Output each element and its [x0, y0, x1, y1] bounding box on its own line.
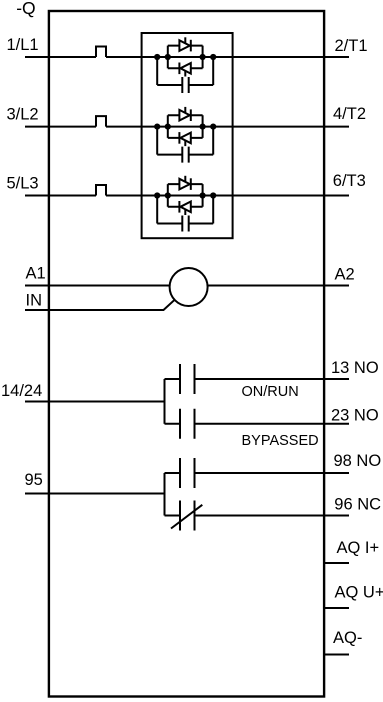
bypass contact (phase L1) [157, 84, 213, 86]
node L3 bypass left [154, 192, 160, 198]
contact 96 NC leads [165, 515, 350, 517]
wire AQ U+ stub [324, 607, 349, 609]
node L2 thyristor right [200, 124, 206, 130]
node L3 thyristor right [200, 192, 206, 198]
svg-text:A2: A2 [335, 266, 355, 284]
wire AQ I+ stub [324, 562, 349, 564]
svg-text:4/T2: 4/T2 [333, 105, 366, 123]
wire L3 through [106, 195, 349, 197]
device outline box -Q [49, 11, 324, 697]
svg-text:6/T3: 6/T3 [333, 172, 366, 190]
svg-text:2/T1: 2/T1 [335, 37, 368, 55]
svg-text:95: 95 [25, 471, 43, 489]
wire 95 input [25, 493, 165, 495]
wire L3 thyristor loop verticals [168, 184, 203, 207]
svg-text:3/L2: 3/L2 [7, 106, 39, 124]
wire L2 bypass loop verticals [157, 127, 213, 155]
contact 96 NC slash [171, 505, 202, 529]
svg-text:IN: IN [26, 291, 43, 309]
wire L1 through [106, 56, 349, 58]
wire A2 [208, 285, 350, 287]
thyristor V6 reverse (phase L3) [168, 206, 203, 208]
thyristor V3 forward (phase L2) [168, 114, 203, 116]
current pulse symbol L1 [96, 47, 106, 58]
wire AQ- stub [324, 654, 349, 656]
svg-text:96 NC: 96 NC [334, 495, 381, 513]
thyristor V1 forward (phase L1) [168, 45, 203, 47]
node L1 bypass right [210, 54, 216, 60]
thyristor V4 reverse (phase L2) [168, 137, 203, 139]
contact 13 NO plates [180, 364, 195, 394]
bypass contact (phase L2) [157, 154, 213, 156]
thyristor block box [142, 33, 233, 238]
wire L1 bypass loop verticals [157, 57, 213, 85]
contact 13 NO leads [165, 378, 350, 380]
svg-text:13 NO: 13 NO [331, 359, 379, 377]
svg-text:AQ I+: AQ I+ [337, 539, 380, 557]
wire contact riser 13-23 [164, 379, 166, 424]
contact 96 NC plates [180, 501, 195, 531]
wire A1 [25, 285, 170, 287]
contact 23 NO plates [180, 409, 195, 439]
contact 98 NO leads [165, 472, 350, 474]
svg-text:98 NO: 98 NO [334, 452, 382, 470]
wire IN [25, 300, 175, 310]
svg-text:AQ U+: AQ U+ [335, 584, 383, 602]
wire 14/24 input [25, 401, 165, 403]
thyristor V5 forward (phase L3) [168, 183, 203, 185]
node L1 bypass left [154, 54, 160, 60]
wire L1 thyristor loop verticals [168, 46, 203, 69]
svg-text:BYPASSED: BYPASSED [242, 433, 319, 449]
wire contact riser 98-96 [164, 473, 166, 516]
svg-text:-Q: -Q [16, 0, 35, 18]
bypass contact (phase L3) [157, 223, 213, 225]
node L2 bypass right [210, 124, 216, 130]
contact 23 NO leads [165, 423, 350, 425]
svg-text:AQ-: AQ- [333, 629, 362, 647]
contact 98 NO plates [180, 458, 195, 488]
coil circle K1 [170, 268, 208, 306]
node L1 thyristor left [165, 54, 171, 60]
current pulse symbol L3 [96, 185, 106, 196]
wire L1 left [25, 56, 96, 58]
node L2 thyristor left [165, 124, 171, 130]
wire L3 left [25, 195, 96, 197]
wire L2 thyristor loop verticals [168, 115, 203, 138]
svg-text:5/L3: 5/L3 [7, 175, 39, 193]
wire L2 through [106, 126, 349, 128]
svg-text:23 NO: 23 NO [331, 406, 379, 424]
node L1 thyristor right [200, 54, 206, 60]
svg-text:1/L1: 1/L1 [7, 36, 39, 54]
svg-text:14/24: 14/24 [1, 382, 42, 400]
svg-text:A1: A1 [26, 265, 46, 283]
wire L2 left [25, 126, 96, 128]
svg-text:ON/RUN: ON/RUN [242, 384, 299, 400]
current pulse symbol L2 [96, 116, 106, 127]
node L3 thyristor left [165, 192, 171, 198]
wire L3 bypass loop verticals [157, 196, 213, 224]
thyristor V2 reverse (phase L1) [168, 67, 203, 69]
node L3 bypass right [210, 192, 216, 198]
node L2 bypass left [154, 124, 160, 130]
